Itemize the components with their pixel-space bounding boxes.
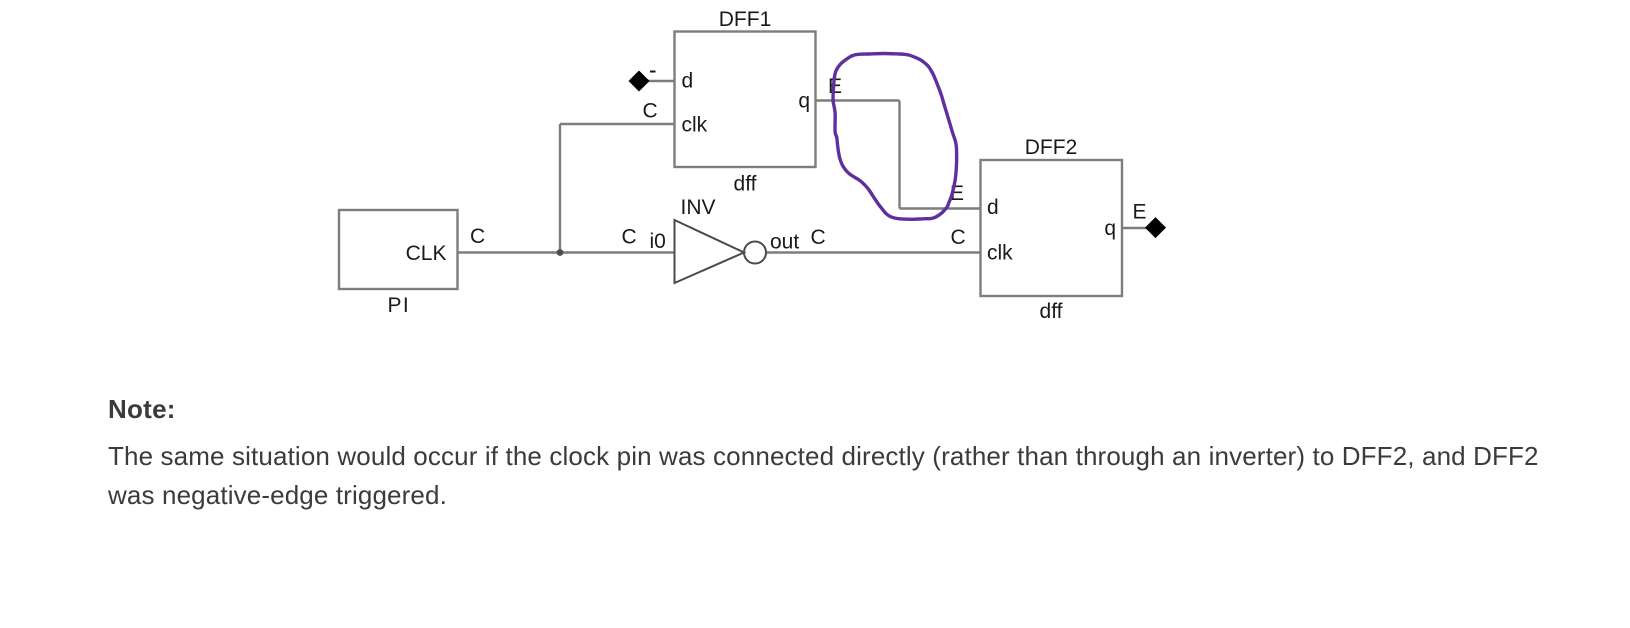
svg-text:clk: clk (987, 242, 1013, 265)
wire DFF1 q horizontal (816, 99, 900, 101)
inverter U INV triangle (675, 220, 745, 283)
wire junction vertical riser (559, 124, 561, 253)
svg-text:PI: PI (388, 294, 411, 317)
wire riser to DFF1 clk pin (560, 123, 675, 125)
svg-text:q: q (798, 90, 810, 113)
CLK source box PI (339, 210, 458, 289)
svg-text:DFF1: DFF1 (719, 8, 772, 31)
svg-text:CLK: CLK (406, 242, 447, 265)
paragraph line 2 (108, 480, 447, 511)
svg-text:d: d (682, 70, 694, 93)
wire CLK output to inverter input (458, 251, 675, 253)
note heading (108, 394, 176, 425)
wire DFF2 q to output diamond (1122, 227, 1147, 229)
wire to DFF2 d pin (900, 207, 981, 209)
svg-text:i0: i0 (650, 230, 666, 253)
inverter bubble (744, 242, 766, 264)
paragraph line 1 (108, 441, 1539, 472)
svg-text:C: C (643, 100, 658, 123)
wire vertical drop from DFF1 q (898, 101, 900, 209)
svg-text:d: d (987, 196, 999, 219)
DFF1 box (675, 32, 816, 168)
svg-text:C: C (951, 226, 966, 249)
wire input diamond to DFF1 d pin (648, 80, 675, 82)
svg-text:C: C (622, 226, 637, 249)
svg-text:clk: clk (682, 114, 708, 137)
svg-text:E: E (1133, 201, 1147, 224)
wire inverter output to DFF2 clk pin (765, 251, 981, 253)
svg-text:q: q (1104, 217, 1116, 240)
output diamond port (1145, 217, 1166, 238)
annotation purple loop (833, 54, 957, 220)
svg-text:dff: dff (734, 173, 757, 196)
svg-text:INV: INV (681, 196, 716, 219)
input diamond port (629, 71, 650, 92)
svg-text:dff: dff (1040, 300, 1063, 323)
node junction dot (557, 249, 564, 256)
svg-text:DFF2: DFF2 (1025, 136, 1078, 159)
input port minus mark (650, 71, 656, 73)
svg-text:C: C (811, 226, 826, 249)
svg-text:C: C (470, 225, 485, 248)
DFF2 box (981, 160, 1123, 296)
svg-text:out: out (770, 231, 799, 254)
